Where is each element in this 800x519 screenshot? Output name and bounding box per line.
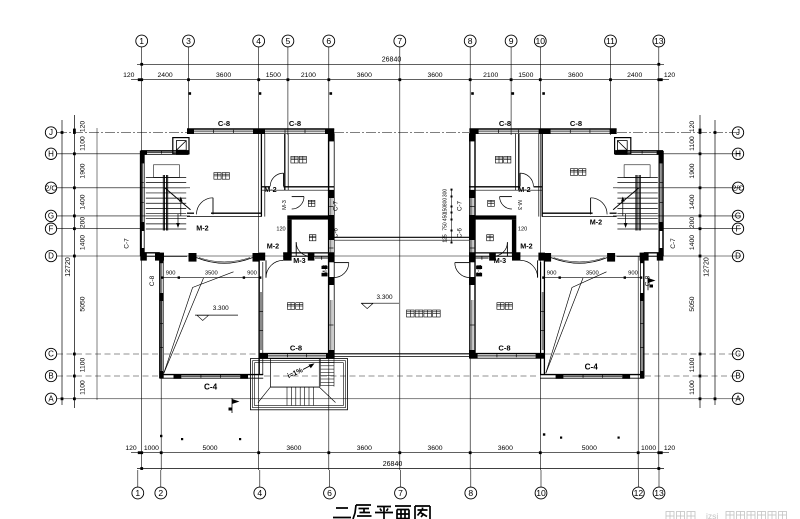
bedroom1 door arc M-2 <box>591 198 608 215</box>
hall door M-2 to south arc <box>266 260 283 277</box>
svg-text:2: 2 <box>158 488 163 498</box>
svg-text:900: 900 <box>247 271 257 277</box>
axis bubble B right <box>732 370 743 381</box>
svg-text:1: 1 <box>135 488 140 498</box>
grid bubble 5 top <box>282 35 294 47</box>
svg-text:3500: 3500 <box>205 271 218 277</box>
grid bubble 6 top <box>323 35 335 47</box>
bedroom1 door arc M-2 <box>196 198 213 215</box>
svg-text:4: 4 <box>257 488 262 498</box>
svg-text:C: C <box>735 350 741 359</box>
door opening to terrace with arc <box>455 263 470 278</box>
porch corner diagonals <box>258 387 336 402</box>
toilet label lower left <box>309 235 316 241</box>
axis line 2/C left <box>57 187 190 189</box>
bedroom1 east wall <box>539 133 542 216</box>
wall on grid 2 below D <box>160 256 163 378</box>
gutter tick marks <box>160 433 620 440</box>
duct shaft square <box>173 138 189 154</box>
axis bubble A right <box>732 393 743 404</box>
svg-text:C-6: C-6 <box>457 227 464 238</box>
left dimension numbers <box>80 121 87 395</box>
grid bubble 7 bottom <box>395 470 407 499</box>
grid-2 wall piers <box>159 256 163 378</box>
svg-text:3600: 3600 <box>498 445 513 452</box>
south wall piers <box>259 353 334 358</box>
bay window curved front <box>197 258 253 264</box>
svg-text:M-3: M-3 <box>293 256 305 265</box>
svg-text:3600: 3600 <box>427 72 442 79</box>
labels C-7 C-6 right terrace wall <box>457 200 464 238</box>
bedroom2 west wall <box>285 133 288 190</box>
window in stair top wall <box>147 151 176 154</box>
vertical grid line 13 <box>658 47 660 470</box>
axis bubble G left <box>45 210 56 221</box>
grid bubble 11 top <box>605 35 617 47</box>
bath lower door arc <box>296 242 310 256</box>
svg-text:G: G <box>735 212 741 221</box>
svg-text:12720: 12720 <box>704 257 711 277</box>
axis line A <box>57 398 741 400</box>
svg-text:8: 8 <box>468 488 473 498</box>
svg-text:M-2: M-2 <box>196 224 208 233</box>
svg-text:450: 450 <box>443 213 449 222</box>
bedroom label upper-left unit room2 <box>291 156 307 163</box>
vertical grid line 8 <box>469 47 471 470</box>
svg-text:C-8: C-8 <box>570 119 582 128</box>
terrace-facing wall piers <box>328 133 334 358</box>
vertical grid line 4 <box>258 47 260 470</box>
svg-text:1400: 1400 <box>80 235 87 250</box>
svg-text:C-8: C-8 <box>498 344 510 353</box>
svg-text:750: 750 <box>443 222 449 231</box>
vertical grid line 2 <box>160 256 162 470</box>
svg-text:10: 10 <box>536 36 546 46</box>
axis bubble G right <box>732 210 743 221</box>
svg-text:C-4: C-4 <box>204 383 218 392</box>
D axis wall of unit <box>469 253 663 256</box>
axis line H right <box>659 153 741 155</box>
svg-text:C-7: C-7 <box>670 238 677 249</box>
bedroom label lower-right unit <box>497 303 513 310</box>
window in bedroom-south west wall <box>259 292 262 350</box>
svg-text:13: 13 <box>654 488 664 498</box>
small window in D wall <box>315 256 328 260</box>
outer wall left (grid 1) <box>659 151 663 256</box>
svg-text:120: 120 <box>125 445 137 452</box>
stair top wall piers <box>615 150 663 154</box>
svg-text:900: 900 <box>628 271 638 277</box>
stair top wall piers <box>141 150 189 154</box>
svg-text:1500: 1500 <box>518 72 533 79</box>
bay window curved front <box>551 258 607 264</box>
axis bubble 2/C left <box>45 182 57 193</box>
vertical grid line 5 <box>287 47 289 135</box>
svg-text:G: G <box>48 212 54 221</box>
entrance porch outer outlines <box>251 359 348 410</box>
bath upper door arc <box>292 197 304 209</box>
left wall piers <box>140 154 144 256</box>
svg-text:26840: 26840 <box>383 461 403 468</box>
grid bubble 8 top <box>464 35 476 47</box>
bath dividing wall horizontal <box>473 215 517 219</box>
axis bubble H left <box>45 148 56 159</box>
left wall piers <box>659 154 663 256</box>
svg-text:2/C: 2/C <box>732 183 744 192</box>
bath upper door arc <box>500 197 512 209</box>
axis bubble A left <box>45 393 56 404</box>
svg-text:6: 6 <box>326 36 331 46</box>
axis line B segments <box>57 375 741 377</box>
bottom segment dimension line <box>131 451 669 454</box>
svg-text:1100: 1100 <box>80 136 87 151</box>
svg-text:C-8: C-8 <box>290 344 302 353</box>
bath dividing wall vertical <box>512 220 516 257</box>
svg-text:8: 8 <box>468 36 473 46</box>
axis line G right <box>613 215 741 217</box>
vertical grid line 10 <box>539 47 541 470</box>
svg-text:H: H <box>48 149 54 158</box>
window C-4 in terrace wall <box>563 375 622 378</box>
middle terrace south wall (C axis) <box>334 354 469 357</box>
svg-text:2100: 2100 <box>301 72 316 79</box>
svg-text:3600: 3600 <box>286 445 301 452</box>
svg-text:1000: 1000 <box>144 445 159 452</box>
bottom total dimension line 26840 <box>137 461 664 470</box>
tiny C-3 symbol <box>476 266 482 277</box>
window C-8 in south wall <box>478 354 536 357</box>
outer wall top (J axis) left unit <box>187 129 334 134</box>
svg-text:13: 13 <box>654 36 664 46</box>
svg-text:12: 12 <box>634 488 644 498</box>
svg-text:200: 200 <box>689 217 696 229</box>
grid bubble 10 bottom <box>535 470 547 499</box>
sub-dimension chain 900-3500-900 <box>542 271 642 279</box>
svg-text:7: 7 <box>397 36 402 46</box>
stair rails <box>163 175 167 231</box>
faint watermark <box>666 512 695 519</box>
axis bubble C right <box>732 348 743 359</box>
svg-text:M-2: M-2 <box>590 218 602 227</box>
terrace roof valley lines <box>164 272 234 373</box>
unit inner wall facing terrace <box>329 129 335 358</box>
sub-dimension chain 900-3500-900 <box>161 271 261 279</box>
terrace-facing wall piers <box>469 133 475 358</box>
left terrace level mark 3.300 <box>195 305 238 320</box>
svg-text:5050: 5050 <box>689 296 696 311</box>
svg-text:M-2: M-2 <box>520 242 532 251</box>
bottom dimension numbers <box>125 445 675 452</box>
porch slope label <box>287 363 315 380</box>
svg-text:C-7: C-7 <box>333 200 340 211</box>
axis bubble C left <box>45 348 56 359</box>
window C-8 in grid-2 wall <box>641 300 644 371</box>
bedroom-south west wall (grid4) <box>541 256 545 374</box>
svg-text:6: 6 <box>327 488 332 498</box>
stair landing outline <box>154 165 180 178</box>
top segment dimension line <box>131 78 669 81</box>
grid bubble 6 bottom <box>324 470 336 499</box>
toilet label upper right <box>488 200 495 206</box>
svg-text:J: J <box>49 128 53 137</box>
svg-text:C: C <box>48 350 54 359</box>
axis bubble H right <box>732 148 743 159</box>
porch steps vertical lines <box>287 387 313 405</box>
grid bubble 4 bottom <box>254 470 266 499</box>
window C-8 in top wall b <box>265 130 325 133</box>
D axis wall of unit <box>141 253 335 256</box>
bedroom label upper-right unit room2 <box>570 169 586 176</box>
svg-text:3600: 3600 <box>568 72 583 79</box>
svg-text:1500: 1500 <box>266 72 281 79</box>
svg-text:F: F <box>736 224 741 233</box>
bay end piers <box>189 253 259 262</box>
svg-text:120: 120 <box>664 445 676 452</box>
D wall piers black <box>469 253 663 261</box>
svg-text:11: 11 <box>606 36 615 46</box>
svg-text:D: D <box>735 252 741 261</box>
svg-text:1100: 1100 <box>689 357 696 372</box>
small vertical dim chain right of terrace <box>443 189 453 244</box>
door opening to terrace with arc <box>334 263 349 278</box>
vertical grid line 7 <box>399 47 401 470</box>
axis line F left <box>57 228 142 230</box>
svg-text:300: 300 <box>443 189 449 198</box>
right terrace flag symbol <box>648 277 656 290</box>
svg-text:C-8: C-8 <box>499 119 511 128</box>
svg-text:D: D <box>48 252 54 261</box>
svg-text:1100: 1100 <box>689 136 696 151</box>
grid bubble 4 top <box>253 35 265 47</box>
hall north wall / bedroom2 south wall <box>469 187 542 190</box>
svg-text:900: 900 <box>547 271 557 277</box>
svg-text:3600: 3600 <box>357 445 372 452</box>
svg-text:C-8: C-8 <box>149 275 156 286</box>
svg-text:120: 120 <box>518 227 527 233</box>
svg-text:12720: 12720 <box>65 257 72 277</box>
middle level mark 3.300 <box>361 294 399 309</box>
left margin extension line <box>96 128 98 400</box>
middle terrace parapet wall <box>334 237 469 240</box>
svg-text:M-3: M-3 <box>516 200 522 210</box>
toilet label lower right <box>487 235 494 241</box>
small window in D wall <box>475 256 488 260</box>
svg-text:2100: 2100 <box>483 72 498 79</box>
bedroom-south west wall (grid4) <box>259 256 263 374</box>
grid bubble 8 bottom <box>465 470 477 499</box>
svg-text:10: 10 <box>536 488 546 498</box>
top wall piers <box>469 129 616 134</box>
window C-8 in top wall a <box>551 130 610 133</box>
grid bubble 12 bottom <box>633 470 645 499</box>
stair break line <box>613 188 639 210</box>
labels C-7 C-6 left terrace wall <box>333 200 340 238</box>
top dimension numbers <box>123 72 675 79</box>
svg-text:M-2: M-2 <box>267 242 279 251</box>
svg-text:800: 800 <box>443 198 449 207</box>
grid bubble 13 top <box>653 35 665 47</box>
svg-text:3500: 3500 <box>586 271 599 277</box>
D wall piers black <box>140 253 334 261</box>
windows in terrace-facing wall <box>470 198 474 350</box>
axis bubble F right <box>732 223 743 234</box>
vertical grid line 11 <box>610 47 612 135</box>
svg-text:2400: 2400 <box>158 72 173 79</box>
duct shaft square <box>615 138 631 154</box>
svg-text:3600: 3600 <box>216 72 231 79</box>
south wall piers <box>469 353 544 358</box>
vertical grid line 3 <box>188 47 190 133</box>
stair direction arrows <box>621 197 627 229</box>
wall on grid 2 below D <box>640 256 643 378</box>
bedroom1 south wall <box>187 213 261 216</box>
stair block top wall (H axis) <box>141 151 189 155</box>
svg-text:9: 9 <box>509 36 514 46</box>
terrace wall end blocks <box>174 374 249 379</box>
grid bubble 3 top <box>183 35 195 47</box>
svg-text:1900: 1900 <box>689 163 696 178</box>
window in stair top wall <box>628 151 657 154</box>
vertical grid line 9 <box>510 47 512 135</box>
svg-text:900: 900 <box>166 271 176 277</box>
stair block top wall (H axis) <box>615 151 663 155</box>
svg-text:H: H <box>735 149 741 158</box>
bedroom south wall (C axis) <box>469 354 544 359</box>
left step flag symbol <box>229 398 240 413</box>
svg-text:120: 120 <box>664 72 676 79</box>
svg-text:C-7: C-7 <box>457 200 464 211</box>
axis bubble B left <box>45 370 56 381</box>
axis line C segments <box>57 353 741 355</box>
axis line F right <box>662 228 741 230</box>
window C-8 in south wall <box>268 354 326 357</box>
opening tick marks row <box>189 92 545 95</box>
vertical grid line 12 <box>637 256 639 470</box>
svg-text:1400: 1400 <box>689 194 696 209</box>
left segment dimension line <box>73 115 76 408</box>
svg-text:5000: 5000 <box>202 445 217 452</box>
axis line G left <box>57 215 190 217</box>
window in bedroom-south west wall <box>541 292 544 350</box>
svg-text:M-3: M-3 <box>494 256 506 265</box>
svg-text:2/C: 2/C <box>45 183 57 192</box>
svg-text:120: 120 <box>689 121 696 133</box>
axis line H left <box>57 153 142 155</box>
roof terrace label <box>407 310 441 317</box>
stair break line <box>165 188 191 210</box>
window C-8 in grid-2 wall <box>160 300 163 371</box>
svg-text:jzsj: jzsj <box>705 511 718 519</box>
svg-text:5050: 5050 <box>80 296 87 311</box>
svg-text:M-3: M-3 <box>282 200 288 210</box>
grid bubble 10 top <box>534 35 546 47</box>
svg-text:1400: 1400 <box>80 194 87 209</box>
svg-text:1100: 1100 <box>80 357 87 372</box>
left total dimension line 12720 <box>61 120 72 405</box>
right dimension numbers <box>689 121 696 395</box>
porch canopy platform <box>270 359 319 388</box>
svg-text:C-7: C-7 <box>124 238 131 249</box>
grid bubble 2 bottom <box>155 470 167 499</box>
window C-8 in top wall b <box>479 130 539 133</box>
svg-text:4: 4 <box>256 36 261 46</box>
vertical grid line 1 <box>141 47 143 470</box>
grid bubble 1 top <box>136 35 148 47</box>
svg-text:C-4: C-4 <box>585 363 599 372</box>
svg-text:1900: 1900 <box>80 163 87 178</box>
window C-4 in terrace wall <box>181 375 240 378</box>
bath dividing wall vertical <box>287 220 291 257</box>
bay end piers <box>545 253 615 262</box>
svg-text:C-6: C-6 <box>333 227 340 238</box>
svg-text:C-8: C-8 <box>289 119 301 128</box>
outer wall left (grid 1) <box>141 151 145 256</box>
window C-8 in top wall a <box>194 130 253 133</box>
svg-text:7: 7 <box>398 488 403 498</box>
terrace bottom wall (B axis) <box>160 375 263 379</box>
top total dimension line 26840 <box>137 57 664 66</box>
svg-text:2400: 2400 <box>627 72 642 79</box>
right terrace roof valley lines <box>546 272 607 373</box>
svg-text:3.300: 3.300 <box>377 294 393 301</box>
axis bubble D left <box>45 250 56 261</box>
axis line D <box>57 255 741 257</box>
stair direction arrows <box>176 197 182 229</box>
grid bubble 7 top <box>394 35 406 47</box>
windows in terrace-facing wall <box>329 198 333 350</box>
porch side steps rungs <box>321 359 335 387</box>
svg-text:B: B <box>48 372 53 381</box>
svg-text:5: 5 <box>286 36 291 46</box>
svg-text:1: 1 <box>139 36 144 46</box>
right segment dimension line <box>699 115 702 408</box>
axis bubble J left <box>45 127 56 138</box>
axis bubble J right <box>732 127 743 138</box>
axis bubble 2/C right <box>732 182 744 193</box>
svg-text:120: 120 <box>80 121 87 133</box>
svg-text:200: 200 <box>80 217 87 229</box>
toilet label upper left <box>308 200 315 206</box>
bedroom2 door arc M-2 <box>520 173 533 186</box>
axis line 2/C right <box>613 187 741 189</box>
right total dimension line 12720 <box>704 120 717 405</box>
bedroom label upper-left unit room1 <box>214 173 230 180</box>
bedroom2 door arc M-2 <box>270 173 283 186</box>
bedroom south wall (C axis) <box>259 354 334 359</box>
axis bubble F left <box>45 223 56 234</box>
svg-text:1100: 1100 <box>689 380 696 395</box>
axis line J segments <box>57 132 741 134</box>
bedroom1 east wall <box>261 133 264 216</box>
unit inner wall facing terrace <box>469 129 475 358</box>
title: floor plan (5 hanzi strokes) <box>333 505 430 519</box>
svg-text:3600: 3600 <box>427 445 442 452</box>
svg-text:3600: 3600 <box>357 72 372 79</box>
stair treads <box>617 178 657 230</box>
outer wall top (J axis) right unit <box>469 129 616 134</box>
axis bubble D right <box>732 250 743 261</box>
svg-text:125: 125 <box>443 234 449 243</box>
svg-text:3.300: 3.300 <box>213 305 229 312</box>
svg-text:M-2: M-2 <box>264 185 276 194</box>
vertical grid line 6 <box>328 47 330 470</box>
stair landing outline <box>624 165 650 178</box>
svg-text:J: J <box>736 128 740 137</box>
svg-text:3: 3 <box>186 36 191 46</box>
window C-7 in left wall <box>660 163 663 222</box>
svg-text:A: A <box>735 394 741 403</box>
window C-7 in left wall <box>141 163 144 222</box>
